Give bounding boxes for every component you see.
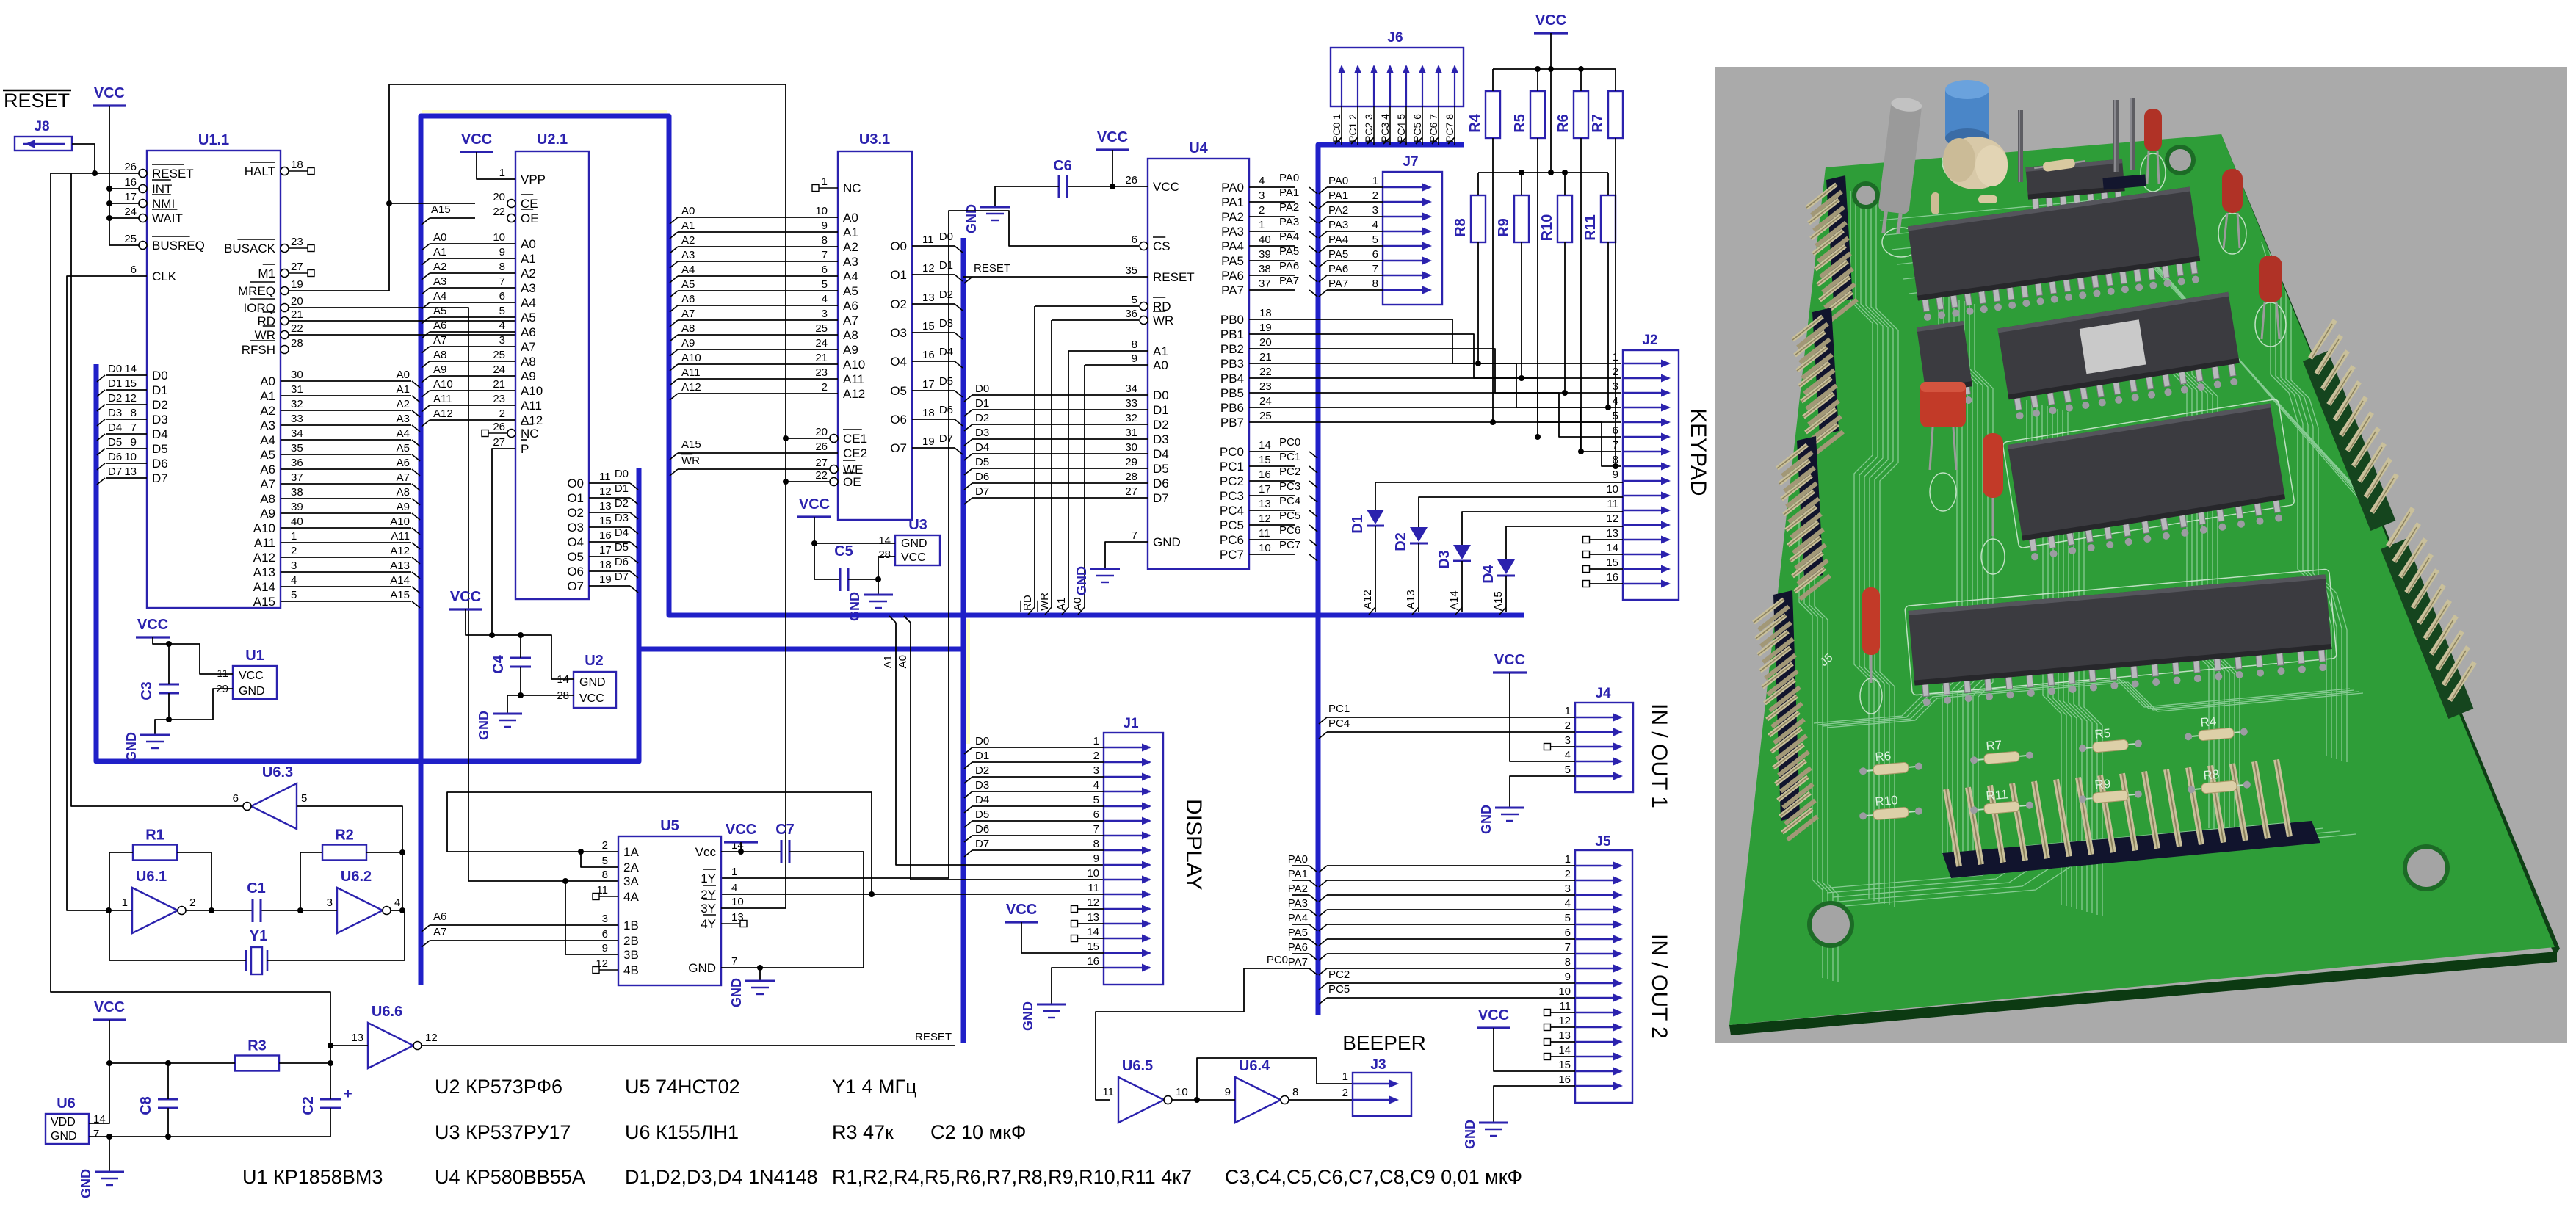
wire WR to U3 WE <box>670 454 830 477</box>
svg-text:VCC: VCC <box>726 822 756 838</box>
wire C5 to U3 VCC pin and ground <box>848 557 895 595</box>
wire PA0-PA7 to J5 rows 1-8 <box>1288 853 1575 975</box>
wire VCC line for R8-R11 <box>1478 170 1608 175</box>
svg-text:A8: A8 <box>521 355 536 369</box>
svg-text:8: 8 <box>499 261 505 273</box>
svg-text:31: 31 <box>291 383 303 396</box>
svg-text:1: 1 <box>822 175 828 188</box>
svg-text:A8: A8 <box>433 349 446 361</box>
svg-text:1: 1 <box>1259 219 1265 231</box>
svg-text:O7: O7 <box>890 441 907 455</box>
ground symbol at U4 <box>1074 566 1120 595</box>
svg-text:U6.4: U6.4 <box>1239 1058 1270 1074</box>
svg-text:D3: D3 <box>939 317 953 330</box>
svg-text:O2: O2 <box>567 506 584 520</box>
crystal beige <box>1943 137 2008 189</box>
svg-text:OE: OE <box>843 475 861 489</box>
svg-text:PA2: PA2 <box>1221 210 1244 224</box>
svg-text:PC7 8: PC7 8 <box>1444 114 1455 142</box>
PCB silk outlines <box>1860 140 2337 714</box>
svg-text:A3: A3 <box>260 419 275 432</box>
svg-text:PC4: PC4 <box>1279 495 1300 507</box>
ground symbol near C4 <box>477 711 522 740</box>
svg-text:2: 2 <box>1372 189 1378 202</box>
resistor R11 <box>1582 173 1616 242</box>
svg-text:12: 12 <box>425 1032 438 1044</box>
svg-text:PA7: PA7 <box>1279 275 1299 287</box>
svg-text:PC7: PC7 <box>1279 539 1300 551</box>
svg-text:38: 38 <box>291 486 303 499</box>
svg-text:26: 26 <box>493 421 505 433</box>
svg-text:17: 17 <box>922 378 935 391</box>
svg-text:2: 2 <box>1565 868 1571 880</box>
wire J8 to U1 RESET <box>72 144 95 173</box>
svg-text:11: 11 <box>1607 498 1618 510</box>
svg-text:D1: D1 <box>108 377 122 390</box>
svg-text:GND: GND <box>1463 1120 1477 1149</box>
svg-text:VCC: VCC <box>1494 652 1525 668</box>
wire J1 pin16 to ground <box>1052 968 1104 1004</box>
svg-text:1: 1 <box>499 167 505 179</box>
svg-text:D0: D0 <box>939 231 953 243</box>
svg-text:28: 28 <box>291 337 303 349</box>
svg-text:Vcc: Vcc <box>695 845 717 859</box>
svg-text:1: 1 <box>1342 1070 1348 1083</box>
svg-text:6: 6 <box>822 264 828 276</box>
svg-text:15: 15 <box>1606 557 1618 569</box>
svg-text:16: 16 <box>1606 571 1618 584</box>
svg-text:A0: A0 <box>260 374 275 388</box>
svg-text:27: 27 <box>291 261 303 273</box>
power VCC at U2 VPP <box>460 131 515 179</box>
svg-text:GND: GND <box>579 676 606 689</box>
connector J5 <box>1558 834 1632 1103</box>
svg-text:D5: D5 <box>1153 462 1169 476</box>
svg-text:D5: D5 <box>108 436 122 449</box>
svg-text:U4 КР580ВВ55А: U4 КР580ВВ55А <box>435 1166 585 1188</box>
resistor R10 <box>1539 173 1572 242</box>
svg-text:7: 7 <box>499 275 505 288</box>
svg-text:A15: A15 <box>390 589 410 601</box>
svg-text:6: 6 <box>1093 808 1099 821</box>
svg-text:21: 21 <box>493 378 505 391</box>
svg-text:A9: A9 <box>397 501 410 513</box>
svg-text:A1: A1 <box>1153 344 1168 358</box>
svg-text:4A: 4A <box>623 890 639 904</box>
svg-text:R3 47к: R3 47к <box>832 1121 894 1143</box>
svg-text:GND: GND <box>1021 1001 1035 1031</box>
svg-text:O0: O0 <box>890 239 907 253</box>
svg-text:A0: A0 <box>1153 358 1168 372</box>
svg-text:A6: A6 <box>681 293 695 305</box>
svg-text:15: 15 <box>1558 1059 1571 1071</box>
svg-text:RESET: RESET <box>152 167 194 181</box>
wire U2 VCC pin28 to ground <box>507 692 574 714</box>
svg-text:3A: 3A <box>623 874 639 888</box>
svg-text:CE1: CE1 <box>843 432 867 446</box>
svg-text:D3: D3 <box>975 779 989 791</box>
svg-text:D7: D7 <box>939 432 953 445</box>
svg-text:PC0: PC0 <box>1220 445 1244 459</box>
svg-text:PA5: PA5 <box>1279 245 1299 258</box>
svg-text:PC6: PC6 <box>1279 524 1300 537</box>
svg-text:A13: A13 <box>390 559 410 572</box>
svg-text:PA0: PA0 <box>1328 175 1348 187</box>
svg-text:PA1: PA1 <box>1328 189 1348 202</box>
label DISPLAY <box>1182 799 1206 891</box>
svg-text:24: 24 <box>815 337 828 349</box>
svg-text:A6: A6 <box>433 910 446 923</box>
svg-text:PC3: PC3 <box>1220 489 1244 503</box>
svg-text:A4: A4 <box>521 296 536 310</box>
svg-text:20: 20 <box>493 191 505 203</box>
svg-text:GND: GND <box>51 1130 77 1142</box>
svg-text:11: 11 <box>1088 882 1099 894</box>
svg-text:10: 10 <box>1606 483 1618 496</box>
wire U3 O0-O7 to data bus <box>912 231 963 454</box>
svg-text:4: 4 <box>499 319 505 332</box>
svg-text:R1: R1 <box>145 827 164 844</box>
svg-text:D5: D5 <box>939 375 953 388</box>
svg-text:D7: D7 <box>108 465 122 478</box>
wire oscillator nodes <box>106 907 402 913</box>
svg-text:10: 10 <box>1558 985 1571 998</box>
svg-text:13: 13 <box>599 500 612 512</box>
svg-text:PC2 3: PC2 3 <box>1363 114 1375 142</box>
IC U1.1 KR1858VM3 Z80 CPU <box>124 132 314 609</box>
svg-text:13: 13 <box>1087 911 1099 924</box>
wire port bus PA/PB/PC right side (thick blue) <box>1318 145 1464 1015</box>
no-connect stubs J5 11-14 <box>1544 1010 1576 1060</box>
svg-text:5: 5 <box>1372 233 1378 246</box>
svg-text:A10: A10 <box>390 515 410 528</box>
IC EPROM with window <box>1997 292 2243 421</box>
svg-text:O1: O1 <box>567 491 584 505</box>
svg-text:A11: A11 <box>391 530 410 543</box>
svg-text:R3: R3 <box>247 1038 267 1054</box>
svg-text:VCC: VCC <box>1478 1007 1509 1024</box>
svg-text:9: 9 <box>1225 1086 1231 1098</box>
svg-text:18: 18 <box>1259 307 1272 319</box>
svg-text:M1: M1 <box>258 267 275 280</box>
svg-text:3: 3 <box>822 308 828 320</box>
IC U2 power pins GND/VCC <box>557 653 616 708</box>
svg-text:PB1: PB1 <box>1220 327 1244 341</box>
svg-text:PB3: PB3 <box>1220 357 1244 371</box>
svg-text:13: 13 <box>1558 1029 1571 1042</box>
svg-text:D4: D4 <box>975 794 989 806</box>
svg-text:19: 19 <box>599 573 612 586</box>
svg-text:U2: U2 <box>585 653 604 669</box>
svg-text:9: 9 <box>1565 971 1571 983</box>
svg-text:R9: R9 <box>2094 777 2111 792</box>
svg-text:8: 8 <box>822 234 828 247</box>
svg-text:J6: J6 <box>1387 30 1403 46</box>
wire data bus vertical at U3/J1 <box>961 238 966 1043</box>
svg-text:O5: O5 <box>567 550 584 564</box>
svg-text:VCC: VCC <box>239 670 264 682</box>
svg-text:PC0: PC0 <box>1279 436 1300 449</box>
svg-text:A6: A6 <box>397 457 410 469</box>
svg-text:D7: D7 <box>975 485 989 498</box>
wire U3 A0-A12 stubs from address bus <box>670 205 838 400</box>
svg-text:GND: GND <box>688 961 716 975</box>
svg-text:PC7: PC7 <box>1220 548 1244 562</box>
svg-text:J2: J2 <box>1642 333 1657 348</box>
wire U6.5 to U6.4 and J3 <box>1172 1058 1353 1103</box>
svg-text:U1 КР1858ВМ3: U1 КР1858ВМ3 <box>242 1166 383 1188</box>
connector J8 reset input <box>15 119 72 151</box>
svg-text:A12: A12 <box>433 407 453 420</box>
wire U4 D0-D7 from data bus <box>964 383 1148 504</box>
svg-text:21: 21 <box>291 308 303 321</box>
svg-text:R5: R5 <box>2094 726 2111 742</box>
svg-text:13: 13 <box>124 465 137 478</box>
wire U1 CLK from oscillator <box>67 276 147 910</box>
svg-text:23: 23 <box>493 393 505 405</box>
svg-text:21: 21 <box>1259 351 1272 363</box>
svg-text:A12: A12 <box>1361 590 1374 609</box>
svg-text:9: 9 <box>1093 852 1099 865</box>
power VCC to J1 pin15 <box>1005 902 1104 953</box>
svg-text:D1: D1 <box>1350 515 1366 534</box>
svg-text:3Y: 3Y <box>701 902 716 916</box>
svg-text:7: 7 <box>1372 263 1378 275</box>
PCB traces silkscreen <box>1799 191 2482 982</box>
pin header right group 1 <box>2303 351 2395 531</box>
svg-text:4: 4 <box>731 882 737 894</box>
IC PPI DIP40 bottom <box>1909 574 2334 706</box>
svg-text:GND: GND <box>729 978 744 1007</box>
svg-text:5: 5 <box>1132 294 1137 306</box>
svg-text:9: 9 <box>1613 468 1618 481</box>
svg-text:U6.3: U6.3 <box>262 764 293 780</box>
svg-text:A14: A14 <box>390 574 410 587</box>
svg-text:U6.1: U6.1 <box>136 869 167 885</box>
svg-text:DISPLAY: DISPLAY <box>1182 799 1206 891</box>
wire PC2 PC5 to J5 rows 9-10 <box>1319 968 1575 1004</box>
svg-text:22: 22 <box>291 322 303 335</box>
inverter U6.3 <box>233 764 308 829</box>
svg-text:15: 15 <box>124 377 137 390</box>
svg-text:1: 1 <box>1565 853 1571 866</box>
svg-text:D6: D6 <box>975 823 989 836</box>
svg-text:14: 14 <box>878 535 891 547</box>
svg-text:7: 7 <box>93 1128 99 1140</box>
svg-text:17: 17 <box>599 544 612 557</box>
svg-text:A0: A0 <box>897 655 909 668</box>
svg-text:D1: D1 <box>975 397 989 410</box>
svg-text:7: 7 <box>1613 439 1618 452</box>
svg-text:37: 37 <box>1259 278 1271 290</box>
svg-text:7: 7 <box>131 421 137 434</box>
svg-text:A11: A11 <box>254 536 275 550</box>
capacitor blue electrolytic <box>1945 80 1989 148</box>
wire WR net label <box>289 320 587 336</box>
svg-text:3: 3 <box>327 896 333 909</box>
no-connect stub J4 pin3 <box>1544 744 1576 750</box>
svg-text:2: 2 <box>291 545 297 557</box>
connector J7 <box>1383 154 1442 305</box>
svg-text:D2: D2 <box>939 289 953 301</box>
svg-text:PC6 7: PC6 7 <box>1428 114 1439 142</box>
svg-text:3: 3 <box>1613 380 1618 393</box>
svg-text:OE: OE <box>521 211 539 225</box>
power VCC reset circuit <box>93 999 126 1063</box>
svg-text:13: 13 <box>1259 498 1271 510</box>
svg-text:C6: C6 <box>1053 158 1072 174</box>
svg-text:A7: A7 <box>843 314 858 327</box>
svg-text:22: 22 <box>493 206 505 218</box>
power VCC above R4-R7 <box>1493 12 1616 173</box>
svg-text:U6.6: U6.6 <box>372 1004 402 1020</box>
svg-text:GND: GND <box>964 204 979 233</box>
IC U5 74HCT02 decoder <box>593 818 747 985</box>
wire U4 PB0-PB7 staircase to J2 keypad <box>1249 307 1621 466</box>
ground symbol near C5 <box>847 592 893 621</box>
svg-text:C7: C7 <box>775 822 795 838</box>
svg-text:A0: A0 <box>433 231 446 244</box>
wire U6.3 output to U1 RESET net <box>71 173 243 806</box>
power VCC to J4 pin4 <box>1493 652 1575 761</box>
svg-text:25: 25 <box>815 322 828 335</box>
svg-text:D5: D5 <box>975 456 989 468</box>
svg-text:D1: D1 <box>152 383 168 397</box>
svg-text:PA6: PA6 <box>1279 260 1299 272</box>
svg-text:D4: D4 <box>939 346 953 358</box>
svg-text:U1: U1 <box>245 648 264 664</box>
svg-text:U6.5: U6.5 <box>1122 1058 1153 1074</box>
svg-text:C1: C1 <box>247 880 266 896</box>
svg-text:38: 38 <box>1259 263 1271 275</box>
svg-text:4: 4 <box>1093 779 1099 791</box>
svg-text:26: 26 <box>124 161 137 173</box>
svg-text:8: 8 <box>1292 1086 1298 1098</box>
svg-text:O6: O6 <box>567 565 584 579</box>
svg-text:O3: O3 <box>567 521 584 535</box>
svg-text:O3: O3 <box>890 326 907 340</box>
svg-text:PC5 6: PC5 6 <box>1411 114 1423 142</box>
svg-text:12: 12 <box>1558 1015 1571 1027</box>
svg-text:A5: A5 <box>433 305 446 317</box>
svg-text:2: 2 <box>822 381 828 394</box>
svg-text:6: 6 <box>602 928 608 941</box>
svg-text:A2: A2 <box>397 398 410 410</box>
label KEYPAD <box>1686 408 1710 496</box>
svg-text:GND: GND <box>239 685 265 698</box>
svg-text:A3: A3 <box>681 249 695 261</box>
svg-text:U1.1: U1.1 <box>198 132 229 148</box>
svg-text:1: 1 <box>731 866 737 878</box>
resistor R2 <box>300 827 402 911</box>
svg-text:A15: A15 <box>253 595 275 609</box>
svg-text:A12: A12 <box>390 545 410 557</box>
svg-text:D6: D6 <box>108 451 122 463</box>
svg-text:D1,D2,D3,D4 1N4148: D1,D2,D3,D4 1N4148 <box>625 1166 818 1188</box>
svg-text:9: 9 <box>602 942 608 954</box>
capacitor red 1 <box>2144 109 2162 184</box>
svg-text:8: 8 <box>1132 338 1137 351</box>
svg-text:9: 9 <box>131 436 137 449</box>
svg-text:PC4: PC4 <box>1220 504 1244 518</box>
svg-text:22: 22 <box>815 469 828 482</box>
power VCC to J5 pin15 <box>1477 1007 1575 1071</box>
svg-text:RESET: RESET <box>1153 270 1195 284</box>
svg-text:2: 2 <box>1565 720 1571 732</box>
wire A1 A0 taps down from bus to J1 rows <box>882 616 1104 880</box>
svg-text:3: 3 <box>1565 883 1571 895</box>
svg-text:A2: A2 <box>681 234 695 247</box>
wire U1 GND to ground <box>155 689 233 735</box>
svg-text:A10: A10 <box>433 378 453 391</box>
label RESET on U3 O1 row <box>963 262 1143 283</box>
svg-text:U3.1: U3.1 <box>859 131 890 148</box>
svg-text:O2: O2 <box>890 297 907 311</box>
pin header left J6 group <box>1826 175 1853 303</box>
svg-text:19: 19 <box>922 435 935 448</box>
svg-text:14: 14 <box>1087 926 1099 938</box>
svg-text:1: 1 <box>1613 351 1618 363</box>
svg-text:16: 16 <box>599 529 612 542</box>
wire PC0 from bus to beeper gate U6.5 <box>1096 954 1317 1100</box>
svg-text:A11: A11 <box>843 372 864 386</box>
svg-text:2: 2 <box>189 896 195 909</box>
svg-text:A11: A11 <box>521 399 542 413</box>
svg-text:INT: INT <box>152 182 172 196</box>
svg-text:A5: A5 <box>397 442 410 454</box>
svg-text:24: 24 <box>124 206 137 218</box>
IC small DIP14 top <box>2025 159 2127 219</box>
svg-text:13: 13 <box>351 1032 363 1044</box>
svg-text:U6: U6 <box>57 1095 76 1112</box>
svg-text:12: 12 <box>599 485 612 498</box>
svg-text:A5: A5 <box>843 284 858 298</box>
svg-text:37: 37 <box>291 471 303 484</box>
svg-text:5: 5 <box>1093 794 1099 806</box>
capacitor C2 polarized <box>300 1063 352 1137</box>
PCB board <box>1729 134 2560 1035</box>
resistor R4 <box>1467 69 1500 138</box>
svg-text:A0: A0 <box>681 205 695 217</box>
svg-text:VCC: VCC <box>94 85 125 101</box>
svg-text:9: 9 <box>499 246 505 258</box>
svg-text:A9: A9 <box>843 343 858 357</box>
IC U1 power pins VCC/GND <box>216 648 277 699</box>
svg-text:A9: A9 <box>681 337 695 349</box>
svg-text:A10: A10 <box>253 521 275 535</box>
svg-text:32: 32 <box>1125 412 1137 424</box>
pin header left group 2 <box>1812 308 1839 435</box>
wire U5 3B branch <box>562 878 618 954</box>
svg-text:30: 30 <box>1125 441 1137 454</box>
wire U3 CE1/OE junction from MREQ and U5 3Y <box>783 435 830 908</box>
svg-text:GND: GND <box>1074 566 1089 595</box>
power VCC at U5 with C7 <box>721 822 781 855</box>
svg-text:VCC: VCC <box>1535 12 1566 29</box>
svg-text:BUSACK: BUSACK <box>224 242 276 256</box>
svg-text:PA7: PA7 <box>1221 283 1244 297</box>
inverter U6.2 <box>327 869 401 933</box>
svg-text:2: 2 <box>499 407 505 420</box>
svg-text:2: 2 <box>1093 750 1099 762</box>
IC small DIP8 <box>1917 321 1975 410</box>
svg-text:1: 1 <box>291 530 297 543</box>
wire U5 GND to ground <box>757 965 763 981</box>
svg-text:3: 3 <box>1565 734 1571 747</box>
svg-text:NC: NC <box>521 427 539 441</box>
svg-text:D1: D1 <box>939 259 953 272</box>
svg-text:A15: A15 <box>681 438 701 451</box>
